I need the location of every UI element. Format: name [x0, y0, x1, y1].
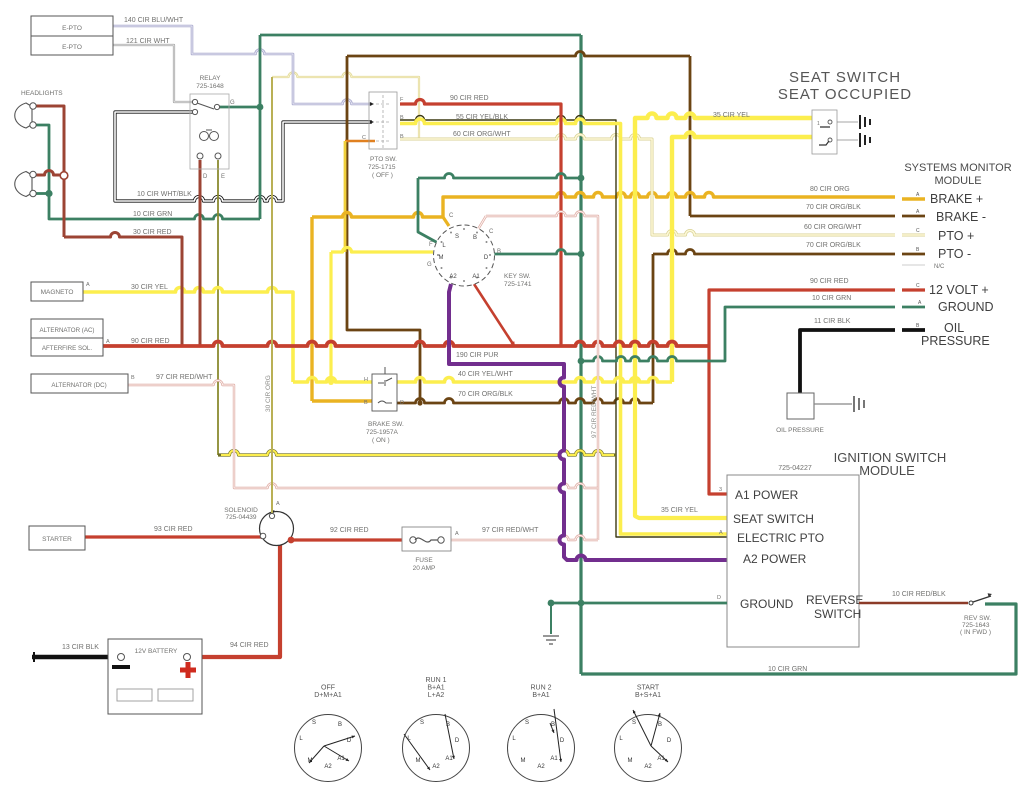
wire key B pink diagonal inner — [477, 216, 486, 231]
relay coil — [200, 132, 209, 141]
svg-text:PTO +: PTO + — [938, 229, 974, 243]
svg-text:35 CIR YEL: 35 CIR YEL — [713, 112, 750, 119]
magneto box — [31, 282, 83, 301]
wire ground stub down — [550, 603, 552, 634]
junction yellow at brake row — [328, 379, 334, 385]
svg-text:B+S+A1: B+S+A1 — [635, 692, 661, 699]
OFF position line — [324, 746, 349, 761]
svg-text:A1: A1 — [472, 274, 480, 280]
svg-text:A: A — [86, 282, 90, 288]
svg-text:GROUND: GROUND — [740, 597, 794, 611]
svg-text:D: D — [455, 738, 460, 744]
key position circle RUN2 — [508, 715, 575, 782]
svg-text:10 CIR RED/BLK: 10 CIR RED/BLK — [892, 591, 946, 598]
svg-text:S: S — [632, 720, 636, 726]
wire brown left vertical — [347, 56, 420, 403]
svg-text:D+M+A1: D+M+A1 — [314, 692, 342, 699]
svg-text:MAGNETO: MAGNETO — [41, 289, 74, 296]
wire 10 CIR WHT/BLK loop inner white — [115, 112, 372, 201]
seat connector bars — [860, 133, 870, 147]
svg-text:SYSTEMS MONITOR: SYSTEMS MONITOR — [904, 162, 1011, 174]
svg-text:B: B — [473, 235, 477, 241]
svg-text:E-PTO: E-PTO — [62, 44, 82, 51]
reverse switch arm — [973, 596, 991, 602]
RUN2 arrowhead — [551, 730, 554, 734]
wire gold key C run — [312, 213, 443, 218]
key switch body — [434, 225, 495, 286]
wire relay E olive vertical — [217, 160, 219, 455]
brake switch box — [372, 374, 397, 411]
wire orange-yellow drop PTO C — [344, 141, 347, 252]
starter box — [29, 526, 85, 550]
wire 55 CIR YEL/BLK yellow — [400, 119, 727, 534]
arrow pto pin B1 — [370, 120, 374, 124]
fuse contact right — [438, 537, 444, 543]
wire green key F row — [418, 174, 581, 179]
lamp headlight 1 — [15, 103, 32, 128]
solenoid pin left — [260, 533, 266, 539]
wire gold key C stub — [443, 217, 449, 226]
key tick — [486, 267, 488, 269]
svg-text:B: B — [338, 722, 342, 728]
wire relay D dark red drop — [199, 160, 202, 346]
divider E-PTO — [31, 35, 113, 37]
svg-text:94 CIR RED: 94 CIR RED — [230, 642, 269, 649]
START position line — [633, 710, 651, 746]
svg-text:10 CIR GRN: 10 CIR GRN — [133, 211, 172, 218]
START arrowhead — [633, 710, 636, 714]
oil pressure switch box — [787, 393, 814, 419]
wire relay E yellow overlay — [221, 451, 614, 456]
arrow solenoid A — [271, 510, 274, 514]
relay coil tick — [206, 129, 212, 131]
RUN1 arrowhead — [452, 756, 455, 759]
svg-text:93 CIR RED: 93 CIR RED — [154, 526, 193, 533]
svg-text:D: D — [717, 595, 721, 601]
solenoid pin top — [269, 513, 274, 518]
relay pin E — [215, 153, 221, 159]
key tick — [463, 228, 465, 230]
wire 92 CIR RED solenoid to fuse — [293, 538, 403, 541]
pin stub OIL — [902, 328, 925, 332]
junction green headlight — [45, 190, 52, 197]
key tick — [450, 232, 452, 234]
junction green F node — [578, 175, 585, 182]
wire green relay G — [218, 106, 260, 109]
wire green main vertical — [579, 35, 582, 674]
wire 13 CIR BLK battery — [32, 655, 121, 660]
svg-text:B: B — [364, 400, 368, 406]
svg-text:A2: A2 — [324, 764, 332, 770]
terminal headlight 2 top — [30, 171, 36, 177]
svg-text:90 CIR RED: 90 CIR RED — [450, 95, 489, 102]
junction ground stub — [548, 600, 555, 607]
svg-text:B+A1: B+A1 — [427, 685, 444, 692]
wire solenoid feed — [271, 77, 273, 513]
key tick — [476, 232, 478, 234]
fuse element — [415, 538, 438, 542]
svg-text:B: B — [131, 375, 135, 381]
wire green top run — [260, 34, 581, 37]
junction red headlight — [60, 172, 68, 180]
key position circle OFF — [295, 715, 362, 782]
oil pressure connector — [854, 396, 864, 412]
junction ground trunk — [578, 600, 585, 607]
wire 97 CIR RED/WHT fuse row inner — [451, 536, 598, 541]
svg-text:B: B — [400, 115, 404, 121]
key tick — [463, 280, 465, 282]
OFF arrowhead — [309, 760, 312, 763]
svg-text:10 CIR WHT/BLK: 10 CIR WHT/BLK — [137, 191, 192, 198]
svg-text:80 CIR ORG: 80 CIR ORG — [810, 186, 850, 193]
svg-text:HEADLIGHTS: HEADLIGHTS — [21, 90, 63, 97]
svg-text:S: S — [455, 234, 459, 240]
svg-text:70 CIR ORG/BLK: 70 CIR ORG/BLK — [806, 204, 861, 211]
svg-text:725-04439: 725-04439 — [225, 514, 256, 521]
wire 190 CIR PUR — [449, 284, 727, 560]
junction yellow seat node — [632, 379, 638, 385]
alternator DC box — [31, 374, 128, 393]
junction green trunk node — [578, 358, 585, 365]
seat switch contacts — [819, 127, 830, 145]
svg-text:STARTER: STARTER — [42, 536, 72, 543]
svg-text:97 CIR RED/WHT: 97 CIR RED/WHT — [156, 374, 213, 381]
wire 35 CIR YEL seat top feed — [635, 114, 812, 383]
wire yellow row to key G — [331, 248, 433, 253]
wire pale top run from solenoid feed — [272, 73, 419, 141]
svg-text:H: H — [364, 377, 368, 383]
wire yellow drop to brake H — [329, 252, 332, 382]
svg-text:D: D — [484, 255, 489, 261]
svg-text:97 CIR RED/WHT: 97 CIR RED/WHT — [591, 386, 598, 438]
wire 140 CIR BLU/WHT — [113, 26, 372, 104]
wire 70 CIR ORG/BLK brake row — [397, 399, 653, 404]
wire headlight red stub — [35, 171, 64, 176]
key position circle RUN1 — [403, 715, 470, 782]
svg-text:D: D — [667, 738, 672, 744]
wire brown top run — [347, 52, 690, 56]
svg-text:( ON ): ( ON ) — [372, 437, 390, 444]
wire 40 CIR YEL/WHT brake row right — [397, 378, 672, 382]
wire 10 CIR GRN bottom run — [581, 604, 1016, 674]
svg-text:RUN 1: RUN 1 — [425, 677, 446, 684]
svg-text:A1 POWER: A1 POWER — [735, 488, 799, 502]
START position line — [651, 713, 660, 746]
svg-text:D: D — [203, 174, 208, 180]
svg-text:M: M — [439, 255, 444, 261]
junction green relay node — [257, 104, 264, 111]
wire module ground — [551, 602, 727, 605]
arrow key A1 join — [511, 341, 515, 346]
wire 97 CIR RED/WHT fuse row — [451, 536, 598, 541]
junction brown brake row — [417, 400, 422, 405]
svg-text:60 CIR ORG/WHT: 60 CIR ORG/WHT — [804, 224, 862, 231]
svg-text:D: D — [560, 738, 565, 744]
svg-text:SEAT OCCUPIED: SEAT OCCUPIED — [778, 86, 912, 103]
svg-text:G: G — [427, 262, 432, 268]
wire 90 CIR RED from PTO — [400, 100, 561, 347]
svg-text:C: C — [362, 135, 366, 141]
svg-text:E-PTO: E-PTO — [62, 25, 82, 32]
svg-text:AFTERFIRE SOL.: AFTERFIRE SOL. — [42, 345, 92, 352]
svg-text:A2 POWER: A2 POWER — [743, 552, 807, 566]
svg-text:10 CIR GRN: 10 CIR GRN — [812, 295, 851, 302]
svg-text:A: A — [106, 339, 110, 345]
ignition module box — [727, 475, 859, 647]
svg-text:A: A — [276, 501, 280, 507]
battery terminal pos — [184, 654, 191, 661]
svg-text:START: START — [637, 685, 660, 692]
svg-text:S: S — [312, 720, 316, 726]
svg-text:SEAT SWITCH: SEAT SWITCH — [733, 512, 814, 526]
svg-text:SEAT SWITCH: SEAT SWITCH — [789, 69, 901, 86]
wire 35 CIR YEL to module SEAT SWITCH — [635, 382, 727, 518]
svg-text:C: C — [916, 228, 920, 234]
wire gold vertical — [310, 217, 313, 401]
svg-text:C: C — [916, 283, 920, 289]
pto switch internals — [376, 95, 390, 148]
svg-text:190 CIR PUR: 190 CIR PUR — [456, 352, 498, 359]
solenoid body — [260, 512, 294, 546]
svg-text:A: A — [719, 530, 723, 536]
arrow reverse switch — [988, 593, 992, 597]
svg-text:( OFF ): ( OFF ) — [372, 172, 393, 179]
START arrowhead — [658, 713, 661, 716]
svg-text:97 CIR RED/WHT: 97 CIR RED/WHT — [482, 527, 539, 534]
svg-text:92 CIR RED: 92 CIR RED — [330, 527, 369, 534]
svg-text:PTO -: PTO - — [938, 247, 971, 261]
seat connector bars — [860, 115, 870, 129]
battery box — [108, 639, 202, 714]
svg-text:60 CIR ORG/WHT: 60 CIR ORG/WHT — [453, 131, 511, 138]
wire 97 CIR RED/WHT alt row inner — [128, 381, 598, 489]
wire 70 CIR ORG/BLK to BRAKE- — [690, 215, 895, 218]
OFF position line — [324, 736, 355, 746]
relay pin D — [197, 153, 203, 159]
svg-text:SWITCH: SWITCH — [814, 607, 861, 621]
svg-text:A2: A2 — [449, 274, 457, 280]
RUN1 position line — [445, 714, 454, 759]
svg-text:A2: A2 — [644, 764, 652, 770]
seat switch box — [812, 110, 837, 154]
svg-text:A: A — [455, 531, 459, 537]
svg-text:725-1715: 725-1715 — [368, 164, 396, 171]
svg-text:30 CIR ORG: 30 CIR ORG — [265, 375, 272, 412]
wire red key A1 diagonal — [474, 284, 513, 344]
pin stub GROUND — [902, 306, 925, 309]
svg-text:E: E — [221, 174, 225, 180]
svg-text:BRAKE +: BRAKE + — [930, 192, 983, 206]
svg-text:M: M — [628, 758, 633, 764]
divider alternator — [31, 337, 103, 339]
key tick — [489, 254, 491, 256]
START position line — [651, 746, 668, 762]
svg-text:30 CIR YEL: 30 CIR YEL — [131, 284, 168, 291]
wire 140 CIR BLU/WHT inner white — [113, 26, 372, 104]
svg-text:1: 1 — [817, 121, 820, 127]
svg-text:90 CIR RED: 90 CIR RED — [810, 278, 849, 285]
svg-text:12V BATTERY: 12V BATTERY — [135, 648, 178, 655]
wire brown riser to PTO- — [652, 254, 655, 403]
key tick — [441, 241, 443, 243]
seat wire to connector top — [837, 122, 858, 140]
svg-text:725-1957A: 725-1957A — [366, 429, 398, 436]
svg-text:BRAKE -: BRAKE - — [936, 210, 986, 224]
svg-text:725-04227: 725-04227 — [778, 465, 812, 472]
svg-text:B: B — [497, 249, 501, 255]
wire 97 CIR RED/WHT alt row — [128, 381, 598, 489]
RUN2 position line — [550, 723, 554, 733]
svg-text:F: F — [429, 242, 433, 248]
START arrowhead — [665, 759, 668, 762]
arrow pto pin F — [370, 102, 374, 106]
wire green headlight lower stub — [35, 192, 49, 195]
solenoid pin right — [288, 537, 295, 544]
brake switch internals — [378, 367, 392, 403]
RUN1 arrowhead — [427, 767, 430, 770]
svg-text:725-1643: 725-1643 — [962, 622, 990, 629]
wire pale top run inner — [272, 73, 419, 140]
battery cell 1 — [117, 689, 152, 701]
seat pin bottom — [828, 138, 832, 142]
pin stub BRAKE + — [902, 197, 925, 200]
pin stub N/C — [902, 264, 925, 266]
fuse box — [402, 527, 451, 551]
pin stub BRAKE - — [902, 215, 925, 218]
key tick — [441, 267, 443, 269]
wire 40 CIR YEL/WHT brake row left — [293, 378, 372, 382]
svg-text:121 CIR WHT: 121 CIR WHT — [126, 38, 170, 45]
relay arm — [197, 103, 214, 109]
wire 70 CIR ORG/BLK to PTO- — [653, 250, 895, 254]
OFF arrowhead — [352, 736, 356, 739]
svg-text:PTO SW.: PTO SW. — [370, 156, 397, 163]
wire green key D row — [493, 250, 581, 254]
svg-text:S: S — [525, 720, 529, 726]
pin stub 12 VOLT + — [902, 288, 925, 291]
svg-text:B: B — [400, 134, 404, 140]
svg-text:OFF: OFF — [321, 685, 335, 692]
relay pin G — [214, 104, 219, 109]
wire 80 CIR ORG to BRAKE+ — [443, 193, 895, 218]
svg-text:ALTERNATOR (DC): ALTERNATOR (DC) — [51, 382, 106, 389]
reverse switch contact — [969, 601, 973, 605]
svg-text:40 CIR YEL/WHT: 40 CIR YEL/WHT — [458, 371, 513, 378]
wire 35 CIR YEL seat bottom feed — [672, 133, 812, 383]
svg-text:RELAY: RELAY — [200, 75, 221, 82]
svg-text:12 VOLT +: 12 VOLT + — [929, 283, 989, 297]
svg-text:70 CIR ORG/BLK: 70 CIR ORG/BLK — [806, 242, 861, 249]
RUN2 position line — [554, 709, 561, 762]
wire 97 CIR RED/WHT key row — [486, 212, 598, 541]
svg-text:M: M — [521, 758, 526, 764]
svg-text:A2: A2 — [537, 764, 545, 770]
wire green module row — [581, 307, 895, 361]
svg-text:B: B — [658, 722, 662, 728]
key position circle START — [615, 715, 682, 782]
svg-text:55 CIR YEL/BLK: 55 CIR YEL/BLK — [456, 114, 508, 121]
key tick — [450, 277, 452, 279]
svg-text:GROUND: GROUND — [938, 300, 994, 314]
key tick — [476, 277, 478, 279]
seat pin top — [828, 120, 832, 124]
svg-text:BRAKE SW.: BRAKE SW. — [368, 421, 404, 428]
svg-text:A1: A1 — [550, 756, 558, 762]
battery cable end tick — [33, 652, 35, 662]
svg-text:KEY SW.: KEY SW. — [504, 273, 531, 280]
connector E-PTO box — [31, 16, 113, 55]
wire 10 CIR RED/BLK — [859, 602, 968, 605]
svg-text:S: S — [420, 720, 424, 726]
svg-text:L+A2: L+A2 — [428, 692, 445, 699]
svg-text:10 CIR GRN: 10 CIR GRN — [768, 666, 807, 673]
svg-text:G: G — [230, 100, 235, 106]
wire 97 CIR RED/WHT key row inner — [486, 212, 598, 541]
oil pressure lead — [814, 403, 852, 405]
OFF position line — [309, 746, 324, 763]
pin stub inner PTO + — [902, 234, 925, 236]
svg-text:20 AMP: 20 AMP — [413, 565, 436, 572]
wire orange stub PTO pin C — [345, 140, 375, 143]
wire 55 CIR YEL/BLK dark — [400, 116, 727, 538]
alternator AC / afterfire box — [31, 319, 103, 356]
svg-text:SOLENOID: SOLENOID — [224, 507, 258, 514]
terminal headlight 1 bottom — [30, 122, 36, 128]
wire 10 CIR WHT/BLK loop outer — [115, 112, 372, 201]
svg-text:FUSE: FUSE — [415, 557, 433, 564]
svg-text:30 CIR RED: 30 CIR RED — [133, 229, 172, 236]
svg-text:RUN 2: RUN 2 — [530, 685, 551, 692]
wire 11 CIR BLK — [800, 330, 895, 393]
svg-text:140 CIR BLU/WHT: 140 CIR BLU/WHT — [124, 17, 184, 24]
wire 10 CIR GRN headlight to relay trunk — [35, 125, 260, 219]
OFF arrowhead — [346, 758, 350, 761]
svg-text:OIL: OIL — [944, 321, 964, 335]
wire 121 CIR WHT — [113, 45, 195, 102]
wire gold brake B row — [312, 399, 372, 402]
wire 121 CIR WHT inner — [113, 45, 195, 102]
svg-text:ELECTRIC PTO: ELECTRIC PTO — [737, 531, 824, 545]
svg-text:725-1648: 725-1648 — [196, 83, 224, 90]
svg-text:13 CIR BLK: 13 CIR BLK — [62, 644, 99, 651]
svg-text:725-1741: 725-1741 — [504, 281, 532, 288]
svg-text:35 CIR YEL: 35 CIR YEL — [661, 507, 698, 514]
wire 90 CIR RED afterfire row — [103, 342, 709, 346]
svg-text:B+A1: B+A1 — [532, 692, 549, 699]
wire green trunk up-over-down — [259, 35, 262, 219]
svg-text:( IN FWD ): ( IN FWD ) — [960, 629, 991, 636]
svg-text:ALTERNATOR (AC): ALTERNATOR (AC) — [39, 327, 94, 334]
wire relay E olive run — [218, 451, 616, 456]
lamp headlight 2 — [15, 172, 32, 197]
pto switch box — [369, 92, 397, 149]
junction green D node — [578, 251, 585, 258]
svg-text:MODULE: MODULE — [859, 463, 915, 478]
wire green key F diagonal — [418, 178, 438, 243]
battery minus — [112, 665, 130, 669]
svg-text:OIL PRESSURE: OIL PRESSURE — [776, 427, 824, 434]
svg-text:C: C — [449, 213, 454, 219]
ground symbol — [543, 636, 559, 644]
battery terminal neg — [118, 654, 125, 661]
wire brown BRAKE- drop — [689, 56, 692, 216]
RUN1 position line — [404, 734, 430, 770]
key tick — [486, 241, 488, 243]
battery cell 2 — [158, 689, 193, 701]
svg-text:PRESSURE: PRESSURE — [921, 334, 990, 348]
wire red riser to 12V+ — [709, 290, 895, 346]
wire 30 CIR RED run — [64, 233, 182, 347]
